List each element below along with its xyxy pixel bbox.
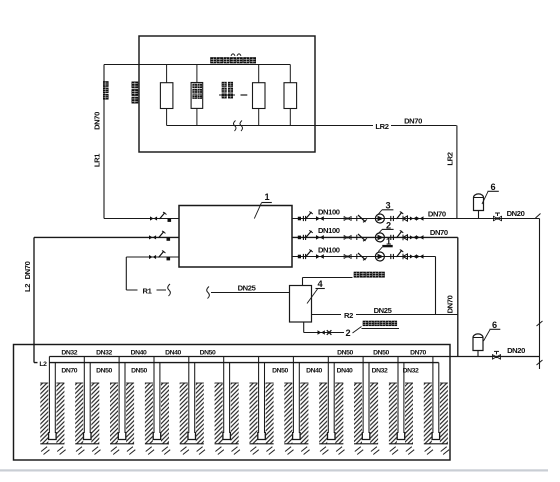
FC2 vertical label — [192, 84, 197, 89]
corner tick top — [536, 214, 541, 219]
wire riser top — [289, 65, 291, 83]
svg-text:L2: L2 — [39, 361, 47, 368]
wire riser bottom — [196, 109, 198, 126]
borehole 7 soil marks — [250, 447, 274, 455]
wire LR1 riser — [103, 65, 105, 219]
valve pipe3 left — [149, 251, 170, 261]
svg-text:DN70: DN70 — [445, 295, 454, 313]
borehole 10 soil marks — [355, 447, 380, 455]
svg-text:DN70: DN70 — [430, 228, 448, 237]
wire R1 drop — [125, 257, 127, 290]
svg-text:DN32: DN32 — [61, 350, 77, 357]
leader tap water label — [353, 327, 362, 334]
svg-text:DN70: DN70 — [404, 117, 422, 126]
borehole 3 soil marks — [111, 447, 136, 455]
fan coil unit FC4 — [284, 83, 297, 109]
svg-text:DN50: DN50 — [373, 350, 389, 357]
pressure tank 6 (bottom) — [473, 334, 483, 351]
expansion tank connection stub — [302, 278, 304, 286]
borehole 1 soil marks — [41, 447, 66, 455]
svg-text:DN70: DN70 — [428, 210, 446, 219]
svg-text:DN32: DN32 — [372, 368, 388, 375]
svg-text:LR2: LR2 — [445, 152, 454, 165]
fan coil unit FC1 — [160, 83, 173, 109]
wire riser top — [196, 65, 198, 83]
AC box title text — [210, 57, 216, 63]
borehole 4 ground hatch — [145, 383, 153, 444]
fan coil unit FC3 — [253, 83, 266, 109]
borehole 11 ground hatch — [389, 383, 397, 444]
makeup valve 1 — [318, 330, 325, 334]
fan coil unit FC2 — [191, 83, 203, 109]
pipe2 valve-pump train — [298, 236, 301, 240]
svg-text:DN32: DN32 — [96, 350, 112, 357]
wire R1 segment — [126, 289, 166, 291]
scan artifact grey band — [0, 469, 548, 471]
break symbol R1 — [168, 284, 171, 296]
svg-text:L2: L2 — [23, 284, 32, 292]
wire pipe1 right / DN20 makeup top — [292, 218, 540, 220]
wire DN25 to water collector — [211, 292, 290, 294]
svg-text:6: 6 — [490, 182, 495, 192]
borehole 1 U-tube — [48, 357, 50, 434]
svg-text:DN70: DN70 — [93, 112, 102, 130]
borehole field enclosure — [14, 345, 451, 461]
wire pipe2 left — [34, 236, 179, 238]
borehole 5 U-tube — [188, 357, 190, 434]
wire pipe3 left — [126, 256, 179, 258]
borehole 11 soil marks — [390, 447, 415, 455]
svg-text:DN50: DN50 — [131, 368, 147, 375]
borehole 10 U-tube — [362, 357, 364, 434]
svg-text:LR2: LR2 — [375, 122, 388, 131]
wire pipe3 right — [292, 256, 436, 258]
pipe1 valve-pump train — [298, 217, 301, 221]
valve pipe2 left — [149, 231, 170, 241]
union tick on drop — [537, 321, 543, 326]
wire supply header H2 — [34, 362, 439, 364]
svg-text:DN25: DN25 — [238, 284, 257, 293]
R2 pipe — [312, 314, 458, 316]
borehole 4 U-tube — [153, 357, 155, 434]
svg-text:DN50: DN50 — [200, 350, 216, 357]
borehole 9 ground hatch — [319, 383, 327, 444]
svg-text:R2: R2 — [344, 311, 353, 320]
svg-text:DN20: DN20 — [507, 209, 525, 218]
svg-text:DN70: DN70 — [410, 350, 426, 357]
borehole 8 ground hatch — [284, 383, 292, 444]
svg-text:DN70: DN70 — [61, 368, 77, 375]
wire top supply header — [104, 64, 290, 66]
svg-text:DN70: DN70 — [23, 261, 32, 279]
borehole 8 U-tube — [292, 357, 294, 434]
vertical label column (unit count note) — [222, 82, 227, 87]
label connect expansion tank — [354, 272, 360, 278]
tank stem bottom — [477, 351, 479, 358]
pressure tank 6 (top) — [474, 194, 484, 211]
borehole 8 soil marks — [285, 447, 310, 455]
terminal AC equipment box — [139, 36, 315, 152]
svg-text:6: 6 — [492, 320, 497, 330]
svg-text:DN40: DN40 — [306, 368, 322, 375]
borehole 12 soil marks — [425, 447, 450, 455]
svg-text:DN40: DN40 — [337, 368, 353, 375]
svg-text:DN25: DN25 — [374, 306, 393, 315]
svg-text:1: 1 — [264, 192, 269, 202]
borehole 5 soil marks — [181, 447, 206, 455]
borehole 9 soil marks — [320, 447, 345, 455]
break marks above title — [231, 54, 241, 56]
vertical label at box edge — [132, 82, 139, 89]
wire riser bottom — [166, 109, 168, 126]
svg-text:LR1: LR1 — [93, 153, 102, 167]
heat pump unit 1 — [179, 206, 292, 268]
svg-text:DN100: DN100 — [318, 208, 340, 217]
svg-text:DN20: DN20 — [507, 346, 525, 355]
break symbol DN25 line — [207, 287, 210, 299]
svg-text:3: 3 — [385, 201, 390, 211]
wire riser top — [166, 65, 168, 83]
wire pipe2 right — [292, 236, 458, 238]
label connect tap water makeup — [363, 321, 368, 326]
wire pipe3 drop — [435, 257, 437, 315]
wire riser top — [258, 65, 260, 83]
borehole 3 ground hatch — [110, 383, 118, 444]
borehole 7 ground hatch — [250, 383, 258, 444]
borehole 6 soil marks — [215, 447, 240, 455]
makeup valve 2 — [327, 330, 332, 335]
borehole 12 U-tube — [432, 357, 434, 434]
tank stem top — [478, 211, 480, 219]
svg-text:4: 4 — [317, 279, 323, 289]
svg-text:DN40: DN40 — [131, 350, 147, 357]
wire riser bottom — [258, 109, 260, 126]
wire DN70 drop to ground loop header — [457, 237, 459, 357]
pipe3 valve-pump train — [298, 255, 301, 259]
break squiggle on return header — [233, 121, 242, 132]
drain tick bottom — [537, 360, 543, 365]
svg-text:DN32: DN32 — [403, 368, 419, 375]
vertical label on LR1 pipe — [103, 81, 109, 87]
svg-text:R1: R1 — [143, 287, 153, 296]
borehole 2 ground hatch — [75, 383, 83, 444]
water tank / collector 4 — [290, 286, 312, 323]
wire LR2 vertical — [456, 126, 458, 219]
motor valve top DN20 — [493, 216, 501, 221]
borehole 12 ground hatch — [424, 383, 432, 444]
wire L2 riser — [33, 237, 35, 362]
svg-text:2: 2 — [345, 328, 350, 338]
borehole 6 U-tube — [223, 357, 225, 434]
borehole 6 ground hatch — [215, 383, 223, 444]
borehole 5 ground hatch — [180, 383, 188, 444]
wire riser bottom — [289, 109, 291, 126]
borehole 9 U-tube — [327, 357, 329, 434]
svg-text:DN50: DN50 — [272, 368, 288, 375]
svg-text:2: 2 — [386, 220, 391, 230]
svg-text:DN50: DN50 — [96, 368, 112, 375]
ellipsis dash — [241, 94, 248, 96]
borehole 2 soil marks — [76, 447, 101, 455]
wire return header H1 — [49, 356, 539, 358]
borehole 10 ground hatch — [354, 383, 362, 444]
motor valve bottom DN20 — [492, 355, 500, 360]
borehole 1 ground hatch — [40, 383, 48, 444]
wire right DN20 drop — [539, 219, 541, 370]
borehole 11 U-tube — [397, 357, 399, 434]
svg-text:DN100: DN100 — [318, 226, 340, 235]
svg-text:DN40: DN40 — [165, 350, 181, 357]
makeup water stub — [303, 322, 305, 333]
borehole 2 U-tube — [83, 357, 85, 434]
wire pipe1 left — [104, 218, 179, 220]
borehole 3 U-tube — [118, 357, 120, 434]
borehole 7 U-tube — [258, 357, 260, 434]
borehole 4 soil marks — [146, 447, 171, 455]
wire bottom return header to LR2 — [167, 125, 457, 127]
svg-text:DN50: DN50 — [337, 350, 353, 357]
valve pipe1 left — [150, 212, 171, 222]
svg-text:DN100: DN100 — [318, 246, 340, 255]
